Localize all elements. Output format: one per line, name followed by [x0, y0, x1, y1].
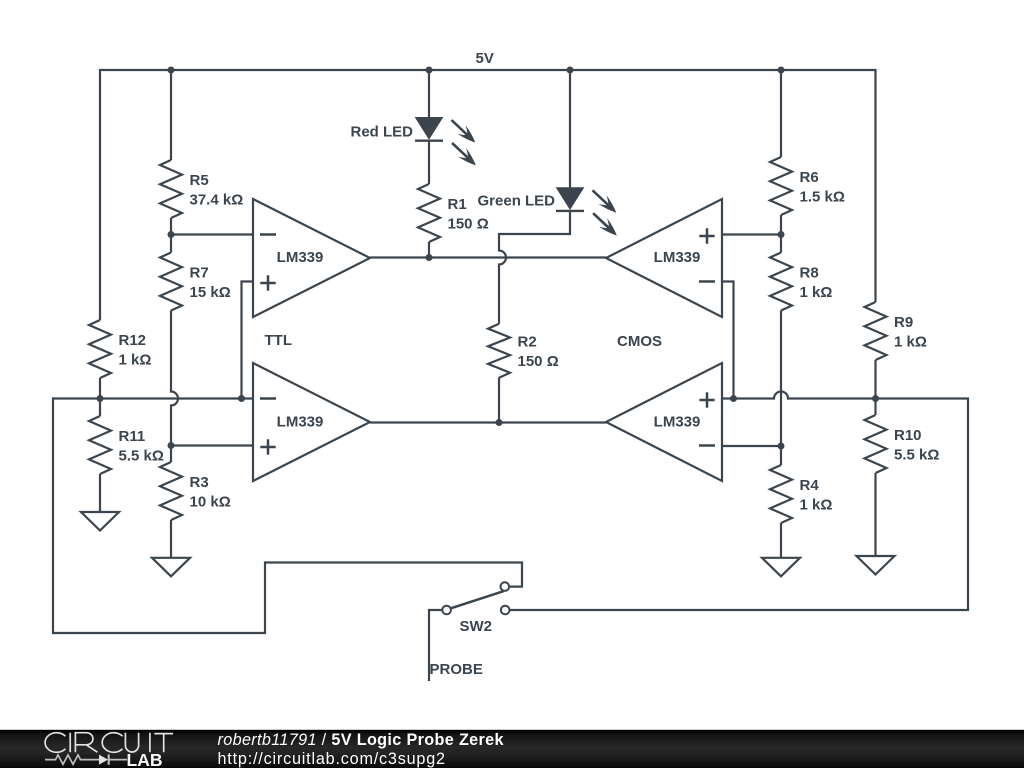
svg-text:R11: R11	[119, 428, 146, 445]
svg-text:LAB: LAB	[127, 750, 163, 768]
wire U3 non-inverting input to R6/R8 node	[722, 233, 781, 235]
resistor R5	[160, 160, 243, 218]
wire node to R10	[874, 399, 876, 416]
resistor R11	[89, 416, 164, 474]
node rail/R6	[778, 67, 785, 74]
LED D2 (Green LED)	[478, 188, 617, 236]
svg-text:R8: R8	[800, 265, 819, 282]
ground (R3)	[152, 558, 190, 577]
svg-text:5.5 kΩ: 5.5 kΩ	[119, 448, 164, 465]
wire U1 non-inverting input to probe net	[242, 282, 254, 399]
svg-text:37.4 kΩ: 37.4 kΩ	[190, 192, 244, 209]
svg-text:PROBE: PROBE	[430, 661, 483, 678]
ground (R11)	[81, 512, 119, 531]
svg-text:Red LED: Red LED	[351, 124, 414, 141]
svg-text:150 Ω: 150 Ω	[518, 353, 559, 370]
svg-text:10 kΩ: 10 kΩ	[190, 494, 231, 511]
wire R6 to R8	[780, 215, 782, 253]
resistor R6	[770, 157, 845, 215]
op-amp U4 (LM339 comparator)	[606, 363, 722, 481]
node R7/R3 divider	[168, 442, 175, 449]
svg-text:robertb11791 / 5V Logic Probe: robertb11791 / 5V Logic Probe Zerek	[218, 731, 505, 749]
svg-text:R5: R5	[190, 172, 209, 189]
footer bar	[0, 730, 1024, 768]
resistor R3	[160, 462, 231, 520]
svg-text:1 kΩ: 1 kΩ	[894, 334, 927, 351]
node R1/output	[426, 254, 433, 261]
op-amp U2 (LM339 comparator)	[253, 363, 370, 481]
svg-text:R9: R9	[894, 314, 913, 331]
wire U1 output to U3 output (red LED net)	[370, 256, 606, 258]
LED D1 (Red LED)	[351, 118, 476, 166]
svg-text:LM339: LM339	[277, 414, 324, 431]
node R5/R7 divider	[168, 231, 175, 238]
resistor R9	[865, 302, 927, 360]
resistor R7	[160, 253, 231, 311]
wire R10 to ground	[874, 473, 876, 556]
svg-text:TTL: TTL	[265, 332, 293, 349]
wire R2 to lower output net	[498, 377, 500, 422]
ground (R4)	[762, 558, 800, 577]
wire U4 inverting input to R8/R4 node	[722, 445, 781, 447]
wire probe net to SW2 throw 1	[53, 399, 522, 634]
wire R7 to R3 (hops over crossing wire)	[171, 311, 178, 446]
wire R11 to ground	[99, 474, 101, 512]
svg-text:1 kΩ: 1 kΩ	[800, 497, 833, 514]
resistor R12	[89, 320, 151, 378]
resistor R8	[770, 253, 832, 311]
node R9/R10	[872, 395, 879, 402]
svg-text:R12: R12	[119, 332, 147, 349]
svg-text:R7: R7	[190, 265, 209, 282]
wire R3 to ground	[170, 520, 172, 558]
svg-text:150 Ω: 150 Ω	[448, 216, 489, 233]
svg-text:R10: R10	[894, 427, 922, 444]
CircuitLab logo	[45, 733, 173, 753]
wire rail to Green LED	[569, 70, 571, 188]
wire R4 to ground	[780, 523, 782, 558]
svg-text:CMOS: CMOS	[617, 333, 662, 350]
svg-text:SW2: SW2	[460, 618, 493, 635]
svg-text:LM339: LM339	[277, 249, 324, 266]
resistor R4	[770, 465, 832, 523]
svg-text:R3: R3	[190, 474, 209, 491]
switch SW2 (SPDT)	[429, 582, 510, 681]
node U1+ probe	[238, 395, 245, 402]
svg-text:LM339: LM339	[654, 249, 701, 266]
node R8/R4 divider	[778, 443, 785, 450]
svg-text:1 kΩ: 1 kΩ	[800, 284, 833, 301]
wire 5V power rail	[100, 70, 876, 320]
wire node to R4	[780, 446, 782, 465]
wire U2 output to U4 output (green LED net)	[370, 421, 606, 423]
wire R8 to R4 node	[780, 311, 782, 447]
wire Green LED to R2 (hops over output wire)	[499, 211, 570, 324]
svg-text:R4: R4	[800, 477, 820, 494]
node U3- net	[730, 395, 737, 402]
svg-text:R2: R2	[518, 334, 537, 351]
wire R1 to output net	[428, 242, 430, 258]
wire Red LED to R1	[428, 141, 430, 184]
node rail/R5	[168, 67, 175, 74]
wire rail to Red LED	[428, 70, 430, 118]
wire R12 to node	[99, 378, 101, 399]
wire U4 non-inverting input to right loop to SW2 throw 2 (hops over R8/R4 wire)	[510, 392, 968, 611]
wire R5 to R7	[170, 218, 172, 253]
svg-text:http://circuitlab.com/c3supg2: http://circuitlab.com/c3supg2	[218, 750, 446, 768]
resistor R2	[488, 324, 559, 378]
wire R9 to node	[874, 360, 876, 399]
svg-text:LM339: LM339	[654, 414, 701, 431]
ground (R10)	[857, 556, 895, 575]
resistor R10	[865, 415, 940, 473]
wire node to R3	[170, 446, 172, 463]
svg-text:1.5 kΩ: 1.5 kΩ	[800, 189, 845, 206]
svg-text:1 kΩ: 1 kΩ	[119, 352, 152, 369]
wire rail to R5	[170, 70, 172, 160]
wire U3 inverting input down to right net	[722, 282, 734, 399]
wire rail to R6	[780, 70, 782, 157]
wire node to U2 non-inverting input	[171, 444, 253, 446]
svg-text:5.5 kΩ: 5.5 kΩ	[894, 447, 939, 464]
svg-text:R1: R1	[448, 196, 467, 213]
svg-text:15 kΩ: 15 kΩ	[190, 284, 231, 301]
op-amp U3 (LM339 comparator)	[606, 199, 722, 317]
svg-text:R6: R6	[800, 169, 819, 186]
net PROBE	[430, 661, 483, 678]
node R6/R8 divider	[778, 231, 785, 238]
node rail/GreenLED	[567, 67, 574, 74]
node R12/R11 probe	[97, 395, 104, 402]
resistor R1	[418, 184, 489, 242]
svg-text:5V: 5V	[476, 50, 494, 67]
wire divider to U1 inverting input	[171, 233, 253, 235]
node R2/output	[496, 419, 503, 426]
svg-text:Green LED: Green LED	[478, 193, 556, 210]
wire node to R11	[99, 399, 101, 417]
op-amp U1 (LM339 comparator)	[253, 199, 370, 317]
node rail/RedLED	[426, 67, 433, 74]
